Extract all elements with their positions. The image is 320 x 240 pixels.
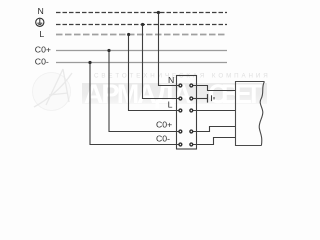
svg-text:L: L	[39, 29, 44, 39]
svg-text:АРМАДА: АРМАДА	[84, 79, 192, 109]
svg-text:N: N	[168, 75, 174, 85]
svg-text:C0+: C0+	[35, 44, 51, 54]
svg-text:C0-: C0-	[35, 57, 49, 67]
svg-text:C0-: C0-	[156, 134, 170, 144]
svg-text:C0+: C0+	[156, 119, 172, 129]
svg-text:L: L	[168, 99, 173, 109]
svg-text:N: N	[38, 6, 44, 16]
